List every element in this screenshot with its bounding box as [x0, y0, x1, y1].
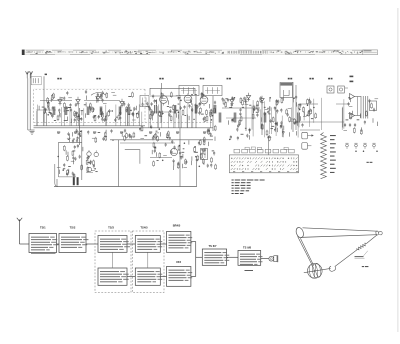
block TS3b AM detector [98, 268, 129, 285]
wire screen feed vertical [292, 82, 294, 132]
wire component drops IF strip [149, 103, 211, 128]
block TS3 IF amplifier [98, 225, 130, 252]
bandswitch cluster [86, 155, 97, 172]
loudspeaker plug [269, 255, 278, 262]
oscillator frame right wire [81, 130, 83, 180]
dial scale strip top rail dashes [26, 49, 366, 52]
wire bottom return bus [54, 186, 197, 188]
tube B3 triode [58, 100, 62, 103]
page scan right edge [397, 8, 399, 332]
tag board panel [229, 155, 298, 173]
mixer grid cluster [87, 129, 135, 143]
block TS2 mixer [59, 225, 88, 252]
tension spring [357, 243, 367, 250]
wire AF line y143 [120, 142, 175, 144]
svg-text:TS4/5: TS4/5 [140, 225, 148, 229]
tag board bottom row dots [233, 170, 298, 173]
receiving antenna [17, 218, 22, 221]
svg-text:TS 6/7: TS 6/7 [209, 244, 217, 248]
AF feedback cluster [261, 117, 297, 142]
cord hook eyelet [329, 266, 336, 271]
tube B4b triode [96, 97, 100, 100]
tag board solder tags [231, 157, 298, 170]
tube stage labels row [57, 76, 353, 83]
wire link to TS6 [196, 256, 203, 258]
block TS9 pin label [245, 269, 254, 272]
wire TS3-TS4 bottom [127, 276, 135, 278]
oscillator transformer core [73, 177, 75, 185]
wire antenna lead-in [19, 221, 21, 244]
dial cord left run A [298, 236, 312, 264]
decoupling cluster below rail [67, 129, 81, 144]
svg-text:TS/1: TS/1 [40, 225, 46, 229]
dial scale strip bottom rail dashes [30, 53, 370, 56]
dial scale strip left end block [22, 50, 25, 55]
oscillator frame top wire [59, 141, 83, 143]
oscillator coil cluster [57, 144, 83, 178]
svg-text:TS/2: TS/2 [70, 225, 76, 229]
tube B12 envelope [170, 148, 177, 155]
wire heavy verticals [44, 89, 262, 145]
dial scale strip body [23, 50, 378, 55]
wire component drops front-end [36, 104, 142, 126]
wire TS5-UF bottom [160, 276, 166, 278]
pickup jack J1 [345, 143, 375, 149]
ground chassis left [30, 131, 35, 134]
wire switch bracket [125, 150, 140, 164]
wire TS3-TS4 top [127, 243, 135, 245]
dial glass tube body [295, 226, 378, 238]
AM diode D1 [87, 152, 91, 156]
detector load cluster [229, 124, 251, 140]
RC network cluster IF strip [146, 99, 217, 123]
IF transformer S2 can [203, 86, 222, 96]
dial cord lower run to hook [335, 250, 357, 267]
tag board legend text [232, 180, 265, 195]
FM diode D2 [94, 152, 98, 156]
wire right section links [296, 104, 349, 130]
block TS1 shadow line [31, 253, 56, 255]
cord length label [355, 251, 368, 258]
AF input cluster [152, 142, 167, 167]
wire curve to bottom bus [55, 164, 58, 187]
wire TS6-TS9 [227, 256, 238, 258]
tube B8b triode [246, 96, 250, 99]
tube B9 triode [260, 99, 264, 102]
detector coil cores [219, 113, 299, 123]
wire AF coupling vertical [179, 95, 181, 187]
output transformer T3 secondary [370, 101, 377, 111]
IF transformer S1 can [179, 86, 199, 96]
block TS9/8 output stage [238, 245, 262, 265]
tube B5a triode [120, 102, 124, 105]
voltage divider resistor chain [321, 133, 327, 179]
wire AVC vertical [295, 85, 297, 130]
wire HT rail [34, 125, 146, 127]
wire left edge bus outer [27, 78, 29, 130]
wire TS3 internal link [112, 252, 114, 268]
dial scale strip right end plate [363, 50, 378, 55]
dial scale annotation specks [28, 51, 375, 55]
tube B5 pentode [160, 96, 168, 104]
block UF3 discriminator [167, 260, 193, 287]
IF input can S0 [140, 96, 149, 107]
dial cord left run B [300, 238, 313, 265]
electrolytic can C90 [327, 86, 334, 93]
wire feedback arc over B4 [91, 93, 106, 96]
svg-text:UF3: UF3 [176, 260, 182, 264]
dial scale strip tick marks [26, 51, 375, 53]
wire left bottom corner [28, 129, 35, 131]
dial scale dense tick row [228, 51, 267, 54]
antenna A1 [26, 71, 29, 78]
block TS1 RF amplifier [29, 225, 58, 252]
wire component drops output [304, 97, 344, 130]
wire AM-FM switch line [110, 139, 213, 141]
antenna input coil L1 [31, 76, 41, 84]
IF cathode cluster [139, 125, 171, 142]
wire component drops detector [252, 100, 299, 137]
RC network cluster AF driver [299, 99, 316, 128]
wire TS4-BR top [160, 243, 166, 245]
wire UF right link [191, 276, 196, 278]
dashed chassis group 2 [132, 231, 164, 293]
AF transformer T2 [201, 149, 208, 160]
dashed chassis group 1 [95, 231, 131, 293]
electrolytic can C91 [338, 86, 345, 93]
wire right vertical link [195, 242, 197, 277]
component value labels under ground rail [57, 132, 206, 134]
IF coil cores [155, 105, 216, 114]
oscillator frame bottom wire [59, 176, 77, 178]
dial scale mid broken line [26, 52, 220, 53]
wire TS2-TS3 [86, 243, 98, 245]
RC network cluster output stage [343, 97, 378, 135]
voltage divider tap labels [330, 135, 336, 173]
wire top loop over B5 [150, 88, 195, 95]
mains connector P1 [302, 132, 308, 139]
wire left edge bus inner [29, 74, 31, 130]
RC network cluster IF upper [152, 92, 204, 101]
AF stage lower cluster [170, 139, 216, 170]
output tube B11 [350, 113, 355, 119]
wire output tube common [357, 97, 359, 116]
wire ground rail [34, 127, 214, 129]
wire antenna feed [43, 76, 45, 89]
RC network cluster front-end [39, 101, 144, 123]
dial cord right run [367, 235, 377, 243]
svg-text:TS 9/8: TS 9/8 [243, 245, 251, 249]
drawing number label R58.10 [367, 162, 373, 163]
jack terminal dots [355, 151, 356, 152]
tone capacitor row [344, 123, 356, 127]
mains connector P2 [302, 143, 308, 150]
dial tube right end cap [376, 231, 383, 235]
wire oscillator vertical [118, 140, 120, 187]
wire BR right link [191, 241, 196, 243]
svg-text:BR4/5: BR4/5 [173, 223, 181, 227]
switch wafer S4 [87, 167, 91, 171]
oscillator frame left wire [58, 142, 60, 177]
antenna terminal label [45, 74, 47, 76]
block TS5 FM detector [135, 268, 162, 285]
tube B7 pentode [200, 96, 208, 104]
svg-text:TS/3: TS/3 [108, 225, 114, 229]
RC network cluster detector [222, 95, 301, 126]
wire TS1-TS2 [57, 243, 60, 245]
dashed box top edge dashes [34, 88, 146, 90]
tube B6 pentode [184, 95, 192, 103]
output tube B10 [350, 94, 355, 100]
antenna A2 [29, 71, 32, 78]
wire tag board feed vertical [268, 140, 270, 156]
wire TS4 internal link [147, 252, 149, 268]
block BR4/5 AF preamp [167, 223, 193, 252]
block TS6/7 AF output [202, 244, 229, 265]
wire bottom-right riser [196, 157, 198, 187]
ratio detector can S3 [280, 83, 293, 98]
drive pulley drum [308, 263, 323, 279]
wire grid bus segments [36, 96, 318, 118]
tube B4a triode [76, 100, 80, 103]
RC network cluster front-end upper [47, 90, 134, 103]
tuning coil cores front-end [53, 107, 130, 116]
wire oscillator box drop [56, 179, 58, 187]
wire to loudspeaker plug [261, 258, 269, 260]
cord run through pulley [304, 268, 331, 272]
wire AF stage link [150, 157, 172, 159]
drawing number label R58.14 [362, 266, 369, 267]
tag board mounting tabs [234, 147, 294, 153]
output transformer T3 windings [361, 96, 368, 119]
dashed alignment box (front-end) [34, 89, 214, 122]
block TS4 IF amplifier 2 [135, 225, 162, 252]
tube B8a triode [230, 100, 234, 103]
cathode network cluster [203, 125, 216, 143]
